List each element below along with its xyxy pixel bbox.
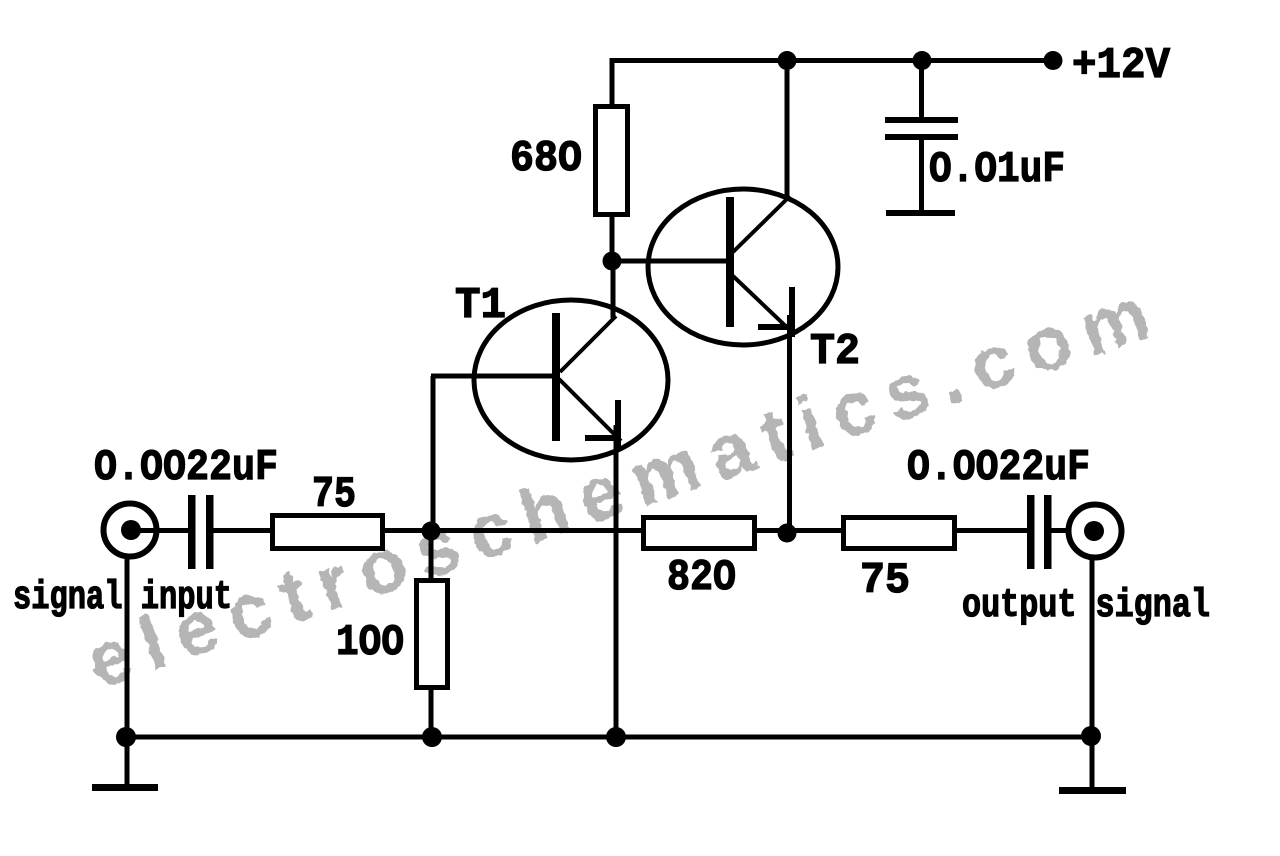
- svg-text:O.O1uF: O.O1uF: [929, 145, 1065, 195]
- svg-text:O.OO22uF: O.OO22uF: [94, 443, 278, 493]
- svg-text:output signal: output signal: [962, 584, 1210, 629]
- svg-text:82O: 82O: [667, 553, 736, 603]
- svg-text:75: 75: [312, 470, 356, 520]
- svg-text:+12V: +12V: [1072, 41, 1171, 91]
- svg-text:T1: T1: [455, 281, 506, 331]
- svg-text:75: 75: [860, 556, 910, 606]
- svg-text:1OO: 1OO: [336, 618, 404, 668]
- svg-text:signal input: signal input: [13, 576, 232, 621]
- svg-text:T2: T2: [810, 327, 860, 377]
- svg-text:O.OO22uF: O.OO22uF: [907, 443, 1090, 493]
- svg-text:68O: 68O: [510, 134, 582, 184]
